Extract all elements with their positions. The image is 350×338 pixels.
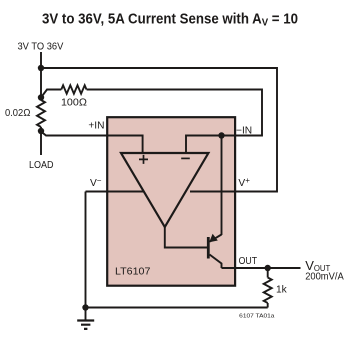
- wire OUT: [222, 267, 301, 269]
- node B junction dot mid: [38, 94, 44, 100]
- ground symbol: [85, 308, 87, 320]
- resistor R2 1k: [267, 268, 269, 278]
- wire V+ inside: [190, 191, 235, 193]
- transistor Q1 base bar: [207, 237, 210, 259]
- wire +IN: [41, 132, 143, 154]
- node A junction dot top: [38, 65, 44, 71]
- op-amp U1a triangle: [121, 153, 208, 227]
- resistor R1 100R zigzag: [61, 85, 86, 93]
- node E junction dot OUT: [265, 265, 271, 271]
- svg-text:V+: V+: [238, 176, 250, 189]
- svg-text:+IN: +IN: [88, 120, 104, 131]
- wire V+ supply loop: [41, 68, 277, 192]
- wire -IN outer: [87, 90, 262, 136]
- svg-text:0.02Ω: 0.02Ω: [5, 108, 31, 119]
- svg-text:3V to 36V, 5A Current Sense wi: 3V to 36V, 5A Current Sense with AV = 10: [42, 11, 298, 28]
- svg-text:1k: 1k: [276, 284, 288, 295]
- svg-text:200mV/A: 200mV/A: [305, 272, 344, 283]
- opamp minus sign: [181, 157, 190, 159]
- transistor Q1 emitter with arrow: [210, 235, 222, 242]
- svg-text:100Ω: 100Ω: [61, 97, 87, 108]
- opamp plus sign: [139, 155, 148, 164]
- node D junction dot -IN: [218, 132, 224, 138]
- node F junction dot ground: [82, 304, 88, 310]
- svg-text:LOAD: LOAD: [29, 160, 54, 171]
- svg-text:LT6107: LT6107: [115, 267, 151, 278]
- transistor Q1 collector: [210, 255, 222, 269]
- wire 100R branch: [41, 90, 61, 98]
- svg-text:V−: V−: [90, 176, 102, 189]
- wire supply vertical: [40, 52, 42, 155]
- resistor RSENSE 0.02R zigzag: [37, 100, 45, 127]
- wire opamp output to base: [165, 227, 208, 248]
- svg-text:−IN: −IN: [236, 125, 252, 136]
- svg-text:OUT: OUT: [239, 256, 258, 267]
- IC U1 LT6107 body: [107, 117, 235, 286]
- wire ground rail: [86, 307, 268, 309]
- node C junction dot bottom: [38, 128, 44, 134]
- wire V-: [86, 192, 145, 308]
- svg-text:6107 TA01a: 6107 TA01a: [239, 313, 275, 319]
- wire emitter vertical: [221, 136, 223, 236]
- wire +IN inside stub: [107, 136, 143, 154]
- svg-text:3V TO 36V: 3V TO 36V: [18, 41, 64, 52]
- wire -IN inside: [186, 136, 235, 154]
